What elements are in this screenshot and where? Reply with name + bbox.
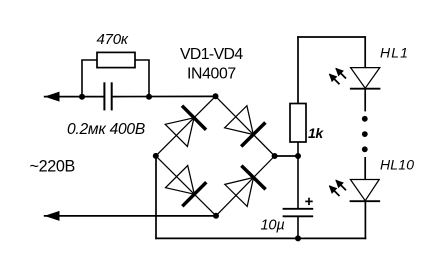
node: junction right of C1 xyxy=(146,94,152,100)
wire: lower AC line xyxy=(44,215,216,217)
wire: left vertical (bridge minus to bottom rail) xyxy=(155,156,157,239)
wire: down to HL10 anode xyxy=(364,157,366,180)
diode VD2 (top-right, anode top node, cathode right node) xyxy=(225,106,266,147)
diode VD1 (top-left, anode left node, cathode top node) xyxy=(165,106,206,147)
wire: down to HL1 anode xyxy=(364,36,366,68)
diode VD3 (bottom-left, anode left node, cathode bottom node) xyxy=(166,166,207,207)
capacitor 10µ (electrolytic) xyxy=(283,208,314,210)
svg-text:10µ: 10µ xyxy=(261,218,285,234)
label: capacitor plus polarity xyxy=(305,198,312,205)
svg-text:HL1: HL1 xyxy=(380,45,409,61)
LED HL10 emission arrows xyxy=(329,180,346,196)
capacitor 0.2мк 400В xyxy=(103,82,105,110)
wire: top AC line left of C1 xyxy=(44,96,104,98)
svg-text:IN4007: IN4007 xyxy=(187,65,236,82)
wire: bridge arm B-R xyxy=(216,156,275,216)
wire: bridge arm T-R xyxy=(216,96,275,156)
wire: resistor right leg xyxy=(135,60,150,97)
wire: junction up to 1k resistor xyxy=(297,142,299,156)
LED HL1 emission arrows xyxy=(329,68,346,84)
resistor 1k xyxy=(290,104,306,143)
terminal arrow: AC input bottom xyxy=(44,211,59,221)
node: bridge left xyxy=(153,153,159,159)
node: junction left of C1 xyxy=(79,94,85,100)
wire: resistor left leg xyxy=(82,60,98,97)
wire: bottom rail xyxy=(155,237,366,239)
svg-text:~220В: ~220В xyxy=(30,157,76,175)
node: capacitor bottom junction xyxy=(295,235,301,241)
node: series dots (HL2...HL9 omitted) xyxy=(362,116,368,122)
wire: bridge plus to 1k/cap junction xyxy=(275,155,298,157)
svg-text:VD1-VD4: VD1-VD4 xyxy=(180,46,243,63)
terminal arrow: AC input top xyxy=(44,92,59,102)
node: junction plus rail xyxy=(295,153,301,159)
wire: bridge arm L-B xyxy=(156,156,216,216)
wire: HL1 cathode down xyxy=(364,89,366,112)
wire: bridge arm T-L xyxy=(156,96,216,156)
svg-text:0.2мк 400В: 0.2мк 400В xyxy=(67,121,145,138)
diode VD4 (bottom-right, anode bottom node, cathode right node) xyxy=(225,166,266,207)
wire: capacitor to bottom rail xyxy=(297,216,299,238)
svg-text:470к: 470к xyxy=(97,31,129,48)
svg-text:1k: 1k xyxy=(308,125,324,141)
LED HL1 xyxy=(350,68,381,89)
LED HL10 xyxy=(350,180,381,202)
svg-text:HL10: HL10 xyxy=(380,157,414,173)
resistor 470к xyxy=(97,52,135,67)
wire: HL10 cathode to bottom rail xyxy=(364,201,366,239)
wire: top rail xyxy=(297,36,365,38)
node: bridge bottom xyxy=(213,213,219,219)
wire: top AC line right of C1 xyxy=(113,95,216,97)
node: bridge top xyxy=(213,93,219,99)
wire: 1k resistor up to top rail xyxy=(297,36,299,103)
node: bridge right xyxy=(272,153,278,159)
wire: junction down to capacitor 10µ xyxy=(297,156,299,208)
